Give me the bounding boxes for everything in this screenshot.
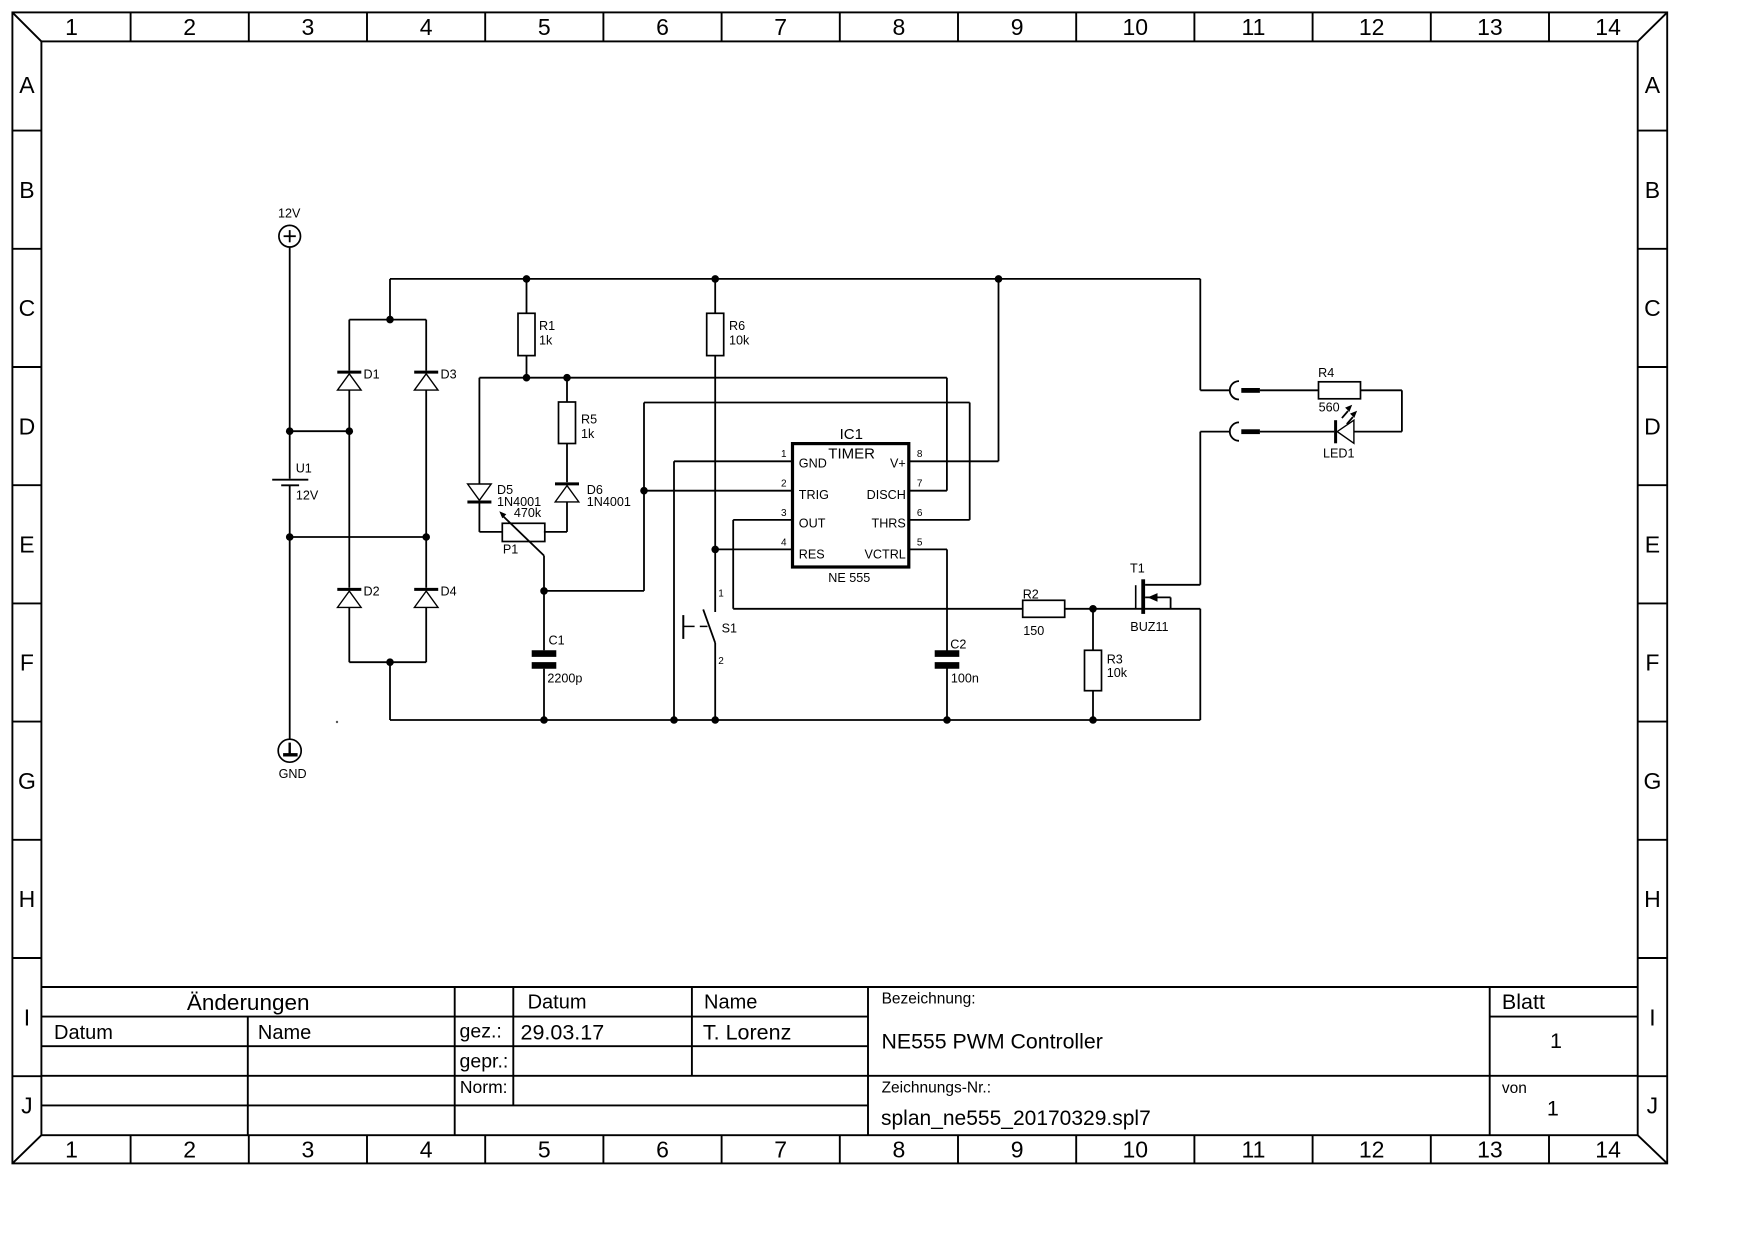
wire R6 to S1 xyxy=(714,356,716,612)
wire R5 to D6 xyxy=(566,444,568,483)
svg-text:1: 1 xyxy=(781,449,787,460)
wire connector1 to R4 xyxy=(1260,389,1319,391)
wire bridge top rail xyxy=(349,319,426,321)
svg-text:U1: U1 xyxy=(296,461,312,475)
svg-text:TRIG: TRIG xyxy=(799,488,829,502)
svg-text:A: A xyxy=(1645,72,1661,98)
node C1 bottom xyxy=(540,716,548,724)
svg-text:NE 555: NE 555 xyxy=(828,571,870,585)
svg-text:9: 9 xyxy=(1011,14,1024,40)
svg-text:T1: T1 xyxy=(1130,561,1145,575)
wire battery to GND xyxy=(289,485,291,739)
svg-text:13: 13 xyxy=(1477,14,1503,40)
svg-text:I: I xyxy=(1649,1004,1655,1030)
svg-text:5: 5 xyxy=(917,537,923,548)
node R6 top xyxy=(711,275,719,283)
svg-text:F: F xyxy=(1645,650,1659,676)
node R5 top xyxy=(563,374,571,382)
svg-text:R1: R1 xyxy=(539,319,555,333)
wire D4 bottom xyxy=(425,608,427,663)
svg-text:R5: R5 xyxy=(581,413,597,427)
svg-text:2: 2 xyxy=(781,479,787,490)
svg-text:Bezeichnung:: Bezeichnung: xyxy=(882,991,976,1008)
svg-text:4: 4 xyxy=(420,14,433,40)
svg-text:R2: R2 xyxy=(1023,588,1039,602)
ground GND xyxy=(278,739,306,781)
diode D3 xyxy=(414,367,456,390)
wire bus to bridge top xyxy=(389,279,391,320)
svg-text:12: 12 xyxy=(1359,14,1385,40)
svg-text:7: 7 xyxy=(774,1137,787,1163)
wire D6 anode to P1 right xyxy=(566,502,568,532)
node TRIG junction xyxy=(640,487,648,495)
svg-text:12V: 12V xyxy=(296,488,319,502)
svg-text:OUT: OUT xyxy=(799,517,826,531)
svg-text:7: 7 xyxy=(774,14,787,40)
wire D2 top stub xyxy=(348,431,350,588)
node GND rail junction xyxy=(670,716,678,724)
node R1 top xyxy=(523,275,531,283)
stray dot xyxy=(336,721,338,723)
wire GND pin1 xyxy=(674,460,793,462)
svg-text:8: 8 xyxy=(893,14,906,40)
svg-text:100n: 100n xyxy=(951,671,979,685)
svg-text:Name: Name xyxy=(704,992,757,1014)
svg-text:C2: C2 xyxy=(950,637,966,651)
svg-text:4: 4 xyxy=(781,537,787,548)
wire D1 bottom xyxy=(348,390,350,431)
node D3/D4 junction xyxy=(422,533,430,541)
node bridge top junction xyxy=(386,316,394,324)
wire battery plus to D1/D2 xyxy=(290,430,350,432)
wire D1 top stub xyxy=(348,320,350,371)
svg-text:1: 1 xyxy=(65,1137,78,1163)
svg-text:1: 1 xyxy=(718,589,724,600)
connector J1a (socket+plug) xyxy=(1230,381,1239,399)
svg-text:RES: RES xyxy=(799,547,825,561)
svg-text:1k: 1k xyxy=(539,333,553,347)
svg-text:NE555 PWM Controller: NE555 PWM Controller xyxy=(882,1029,1103,1053)
svg-text:Zeichnungs-Nr.:: Zeichnungs-Nr.: xyxy=(882,1080,991,1097)
svg-text:2: 2 xyxy=(183,1137,196,1163)
node wiper/C1 junction xyxy=(540,587,548,595)
svg-text:J: J xyxy=(21,1093,33,1119)
svg-text:3: 3 xyxy=(781,508,787,519)
diode D2 xyxy=(337,584,379,607)
svg-text:G: G xyxy=(1643,768,1661,794)
svg-text:1: 1 xyxy=(65,14,78,40)
svg-text:A: A xyxy=(19,72,35,98)
svg-text:11: 11 xyxy=(1242,14,1266,40)
potentiometer P1 470k xyxy=(502,523,545,541)
svg-text:150: 150 xyxy=(1023,624,1044,638)
svg-text:14: 14 xyxy=(1595,1137,1621,1163)
wire TRIG to pin2 xyxy=(644,490,793,492)
svg-text:B: B xyxy=(19,177,34,203)
svg-text:14: 14 xyxy=(1595,14,1621,40)
svg-text:560: 560 xyxy=(1319,400,1340,414)
capacitor C1 2200p xyxy=(543,591,545,650)
wire bridge bottom rail xyxy=(349,661,426,663)
capacitor C2 100n xyxy=(935,650,960,657)
svg-text:D4: D4 xyxy=(441,584,457,598)
wire D3 bottom xyxy=(425,390,427,537)
svg-text:10: 10 xyxy=(1123,14,1149,40)
svg-text:5: 5 xyxy=(538,14,551,40)
wire R1-R5-DISCH bus xyxy=(479,377,947,379)
wire R4 right and down xyxy=(1361,389,1402,391)
svg-text:10: 10 xyxy=(1123,1137,1149,1163)
svg-text:E: E xyxy=(19,532,34,558)
wire to THRS xyxy=(644,402,970,404)
wire ground rail xyxy=(390,719,1200,721)
node battery minus junction xyxy=(286,533,294,541)
svg-text:H: H xyxy=(19,886,36,912)
wire D3 top stub xyxy=(425,320,427,371)
svg-text:Norm:: Norm: xyxy=(460,1077,508,1097)
diode D5 xyxy=(467,484,491,502)
wire LED to connector 2 xyxy=(1260,431,1334,433)
svg-text:D: D xyxy=(1644,413,1661,439)
svg-text:THRS: THRS xyxy=(872,517,906,531)
resistor R4 560 xyxy=(1319,382,1361,399)
IC IC1 NE555 timer box xyxy=(793,444,909,567)
resistor R2 150 xyxy=(1023,600,1065,617)
svg-text:11: 11 xyxy=(1242,1137,1266,1163)
wire OUT pin3 xyxy=(733,519,792,521)
svg-text:6: 6 xyxy=(917,508,923,519)
svg-text:8: 8 xyxy=(893,1137,906,1163)
svg-text:IC1: IC1 xyxy=(840,426,863,443)
svg-text:GND: GND xyxy=(279,767,307,781)
svg-text:B: B xyxy=(1645,177,1660,203)
svg-text:1N4001: 1N4001 xyxy=(587,495,631,509)
svg-text:Datum: Datum xyxy=(54,1022,113,1044)
svg-text:C: C xyxy=(1644,295,1661,321)
resistor R6 10k xyxy=(714,279,716,313)
svg-text:D3: D3 xyxy=(441,367,457,381)
svg-text:13: 13 xyxy=(1477,1137,1503,1163)
svg-text:470k: 470k xyxy=(514,506,542,520)
svg-text:3: 3 xyxy=(302,14,315,40)
wire top supply bus xyxy=(390,278,1200,280)
wire wiper to TRIG column xyxy=(544,590,644,592)
svg-text:12: 12 xyxy=(1359,1137,1385,1163)
svg-text:8: 8 xyxy=(917,449,923,460)
wire S1 bottom xyxy=(714,643,716,720)
node V+ top xyxy=(995,275,1003,283)
svg-text:2200p: 2200p xyxy=(547,671,582,685)
svg-text:Name: Name xyxy=(258,1022,311,1044)
svg-text:29.03.17: 29.03.17 xyxy=(521,1021,605,1045)
wire connector2 to T1 drain xyxy=(1200,431,1230,433)
svg-text:J: J xyxy=(1647,1093,1659,1119)
svg-text:2: 2 xyxy=(183,14,196,40)
wire V+ pin8 xyxy=(909,460,999,462)
power source +12V terminal xyxy=(278,207,301,248)
wire 12V to battery xyxy=(289,247,291,479)
svg-text:BUZ11: BUZ11 xyxy=(1130,620,1168,634)
svg-text:Änderungen: Änderungen xyxy=(187,990,310,1015)
wire D2 bottom xyxy=(348,608,350,663)
svg-text:D: D xyxy=(19,413,36,439)
svg-text:LED1: LED1 xyxy=(1323,447,1355,461)
diode xyxy=(555,484,579,502)
node gate/R3 junction xyxy=(1089,605,1097,613)
svg-text:Datum: Datum xyxy=(528,992,587,1014)
svg-text:DISCH: DISCH xyxy=(867,488,906,502)
svg-text:4: 4 xyxy=(420,1137,433,1163)
svg-text:7: 7 xyxy=(917,479,923,490)
svg-text:splan_ne555_20170329.spl7: splan_ne555_20170329.spl7 xyxy=(881,1107,1151,1130)
svg-text:GND: GND xyxy=(799,456,827,470)
svg-text:V+: V+ xyxy=(890,456,906,470)
wire D5 to P1 left xyxy=(478,504,480,532)
node R3 bottom xyxy=(1089,716,1097,724)
svg-text:gez.:: gez.: xyxy=(460,1021,502,1043)
node C2 bottom xyxy=(943,716,951,724)
svg-text:gepr.:: gepr.: xyxy=(460,1050,509,1072)
svg-text:G: G xyxy=(18,768,36,794)
diode D1 xyxy=(337,367,379,390)
wire bus down to connector 1 xyxy=(1199,279,1201,390)
svg-text:10k: 10k xyxy=(729,333,750,347)
wire D4 top stub xyxy=(425,537,427,588)
svg-text:6: 6 xyxy=(656,1137,669,1163)
wire bus to D5 xyxy=(478,378,480,485)
svg-text:D2: D2 xyxy=(364,584,380,598)
svg-text:von: von xyxy=(1502,1080,1527,1097)
connector J1b (socket+plug) xyxy=(1230,422,1239,440)
battery U1 12V xyxy=(272,461,319,502)
svg-text:1k: 1k xyxy=(581,427,595,441)
svg-text:S1: S1 xyxy=(722,621,737,635)
node RES junction xyxy=(711,546,719,554)
svg-text:9: 9 xyxy=(1011,1137,1024,1163)
wire T1 drain up xyxy=(1199,432,1201,585)
svg-text:R6: R6 xyxy=(729,319,745,333)
wire TRIG column xyxy=(643,403,645,591)
svg-text:VCTRL: VCTRL xyxy=(865,547,906,561)
wire battery minus to bridge mid right xyxy=(290,536,427,538)
svg-text:10k: 10k xyxy=(1107,666,1128,680)
transistor T1 BUZ11 xyxy=(1130,561,1200,633)
wire bridge bottom to ground rail xyxy=(389,662,391,720)
svg-text:5: 5 xyxy=(538,1137,551,1163)
svg-text:R4: R4 xyxy=(1318,366,1334,380)
svg-text:3: 3 xyxy=(302,1137,315,1163)
svg-text:D1: D1 xyxy=(364,367,380,381)
wire P1 wiper down xyxy=(543,556,545,592)
svg-text:I: I xyxy=(24,1004,30,1030)
svg-text:6: 6 xyxy=(656,14,669,40)
node bridge bottom junction xyxy=(386,658,394,666)
svg-text:R3: R3 xyxy=(1107,653,1123,667)
wire R2 to T1 gate/source xyxy=(1065,608,1201,610)
svg-text:C1: C1 xyxy=(549,633,565,647)
svg-text:2: 2 xyxy=(718,656,724,667)
svg-text:H: H xyxy=(1644,886,1661,912)
node S1 bottom xyxy=(711,716,719,724)
svg-text:F: F xyxy=(20,650,34,676)
svg-text:C: C xyxy=(19,295,36,321)
resistor R5 1k xyxy=(566,378,568,402)
node R1 bottom xyxy=(523,374,531,382)
resistor R1 1k xyxy=(526,279,528,313)
svg-text:1: 1 xyxy=(1550,1029,1562,1053)
wire T1 source down xyxy=(1199,609,1201,720)
node D1/D2 junction xyxy=(346,427,354,435)
svg-text:E: E xyxy=(1645,532,1660,558)
wire RES pin4 xyxy=(715,548,792,550)
svg-text:T. Lorenz: T. Lorenz xyxy=(703,1021,791,1045)
diode D4 xyxy=(414,584,456,607)
svg-text:12V: 12V xyxy=(278,207,301,221)
LED LED1 xyxy=(1323,405,1357,461)
svg-text:TIMER: TIMER xyxy=(828,446,875,463)
svg-text:1: 1 xyxy=(1547,1097,1559,1121)
wire DISCH drop xyxy=(946,378,948,491)
svg-text:Blatt: Blatt xyxy=(1502,990,1545,1014)
svg-text:P1: P1 xyxy=(503,542,518,556)
wire VCTRL pin5 to C2 xyxy=(909,548,947,550)
resistor R3 10k xyxy=(1092,609,1094,651)
